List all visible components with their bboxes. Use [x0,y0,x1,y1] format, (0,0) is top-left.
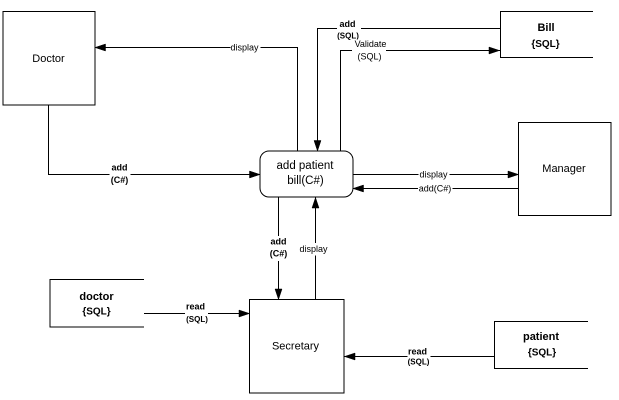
svg-text:(SQL): (SQL) [357,52,381,62]
wire add (SQL) (Bill to process) [318,29,501,152]
svg-text:(SQL): (SQL) [186,315,208,324]
svg-text:bill(C#): bill(C#) [287,175,324,187]
svg-text:Validate: Validate [355,39,387,49]
label add (C#) middle [268,236,289,261]
wire read (SQL) (patient DB to Secretary) [345,356,495,358]
wire display (process to Doctor) [95,48,298,152]
label add(C#) [418,183,453,194]
svg-text:read: read [186,302,205,312]
arrowhead into process bottom [312,198,319,209]
svg-text:(C#): (C#) [270,249,288,259]
svg-text:{SQL}: {SQL} [531,39,559,50]
wire display (Secretary to process) [315,198,317,300]
arrowhead into process right [353,185,364,192]
datastore patient {SQL} [495,322,589,369]
svg-text:add patient: add patient [277,160,335,172]
wire add (C#) (process to Secretary) [278,197,280,299]
arrowhead into process top [314,141,321,152]
svg-text:add: add [339,19,355,29]
svg-text:display: display [230,43,259,53]
wire read (SQL) (doctor DB to Secretary) [144,313,249,315]
label Validate (SQL) [352,39,386,63]
label read (SQL) left [185,300,208,325]
entity Secretary [250,300,345,394]
svg-text:(SQL): (SQL) [408,358,430,367]
wire add (C#) (Doctor to process) [49,105,261,175]
svg-text:Manager: Manager [542,163,586,175]
arrowhead into process left [250,171,261,178]
label display (middle) [299,243,331,256]
datastore Bill (SQL) [501,12,594,58]
arrowhead into Bill [489,47,500,54]
label add (SQL) top [337,17,361,41]
arrowhead into Manager [508,171,519,178]
wire Validate (SQL) (process to Bill) [341,51,501,152]
svg-text:add(C#): add(C#) [419,184,452,194]
label add (C#) left [110,162,131,186]
process add patient bill(C#) [260,151,353,197]
arrowhead into Doctor [95,44,106,51]
wire display (process to Manager) [353,174,519,176]
datastore doctor {SQL} [50,280,144,328]
svg-text:{SQL}: {SQL} [82,307,110,318]
svg-text:display: display [419,170,448,180]
svg-text:Secretary: Secretary [272,341,320,353]
svg-text:(C#): (C#) [111,175,129,185]
entity Doctor [3,12,95,106]
arrowhead into Secretary right [345,353,356,360]
arrowhead into Secretary top [275,289,282,300]
svg-text:patient: patient [523,331,559,343]
svg-text:doctor: doctor [79,291,114,303]
entity Manager [519,123,612,216]
svg-text:Doctor: Doctor [32,53,65,65]
label display (top) [230,41,260,53]
svg-text:read: read [408,347,427,357]
svg-text:Bill: Bill [537,22,554,34]
label display (right) [419,169,450,180]
wire add(C#) (Manager to process) [353,188,519,190]
arrowhead into Secretary left [239,310,250,317]
label read (SQL) right [408,344,431,368]
svg-text:add: add [111,163,127,173]
svg-text:{SQL}: {SQL} [528,348,556,359]
svg-text:add: add [270,237,286,247]
svg-text:display: display [299,244,328,254]
